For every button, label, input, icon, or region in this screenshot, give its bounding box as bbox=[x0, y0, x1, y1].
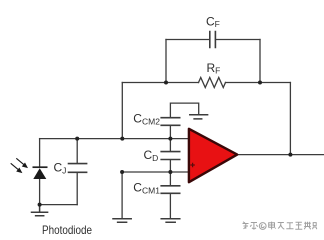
wire: stack segment CCM2 to node bbox=[169, 126, 171, 152]
wire: CF loop right vertical bbox=[259, 40, 261, 83]
wire: photodiode vertical lower bbox=[39, 179, 41, 205]
wire: RF row right segment bbox=[226, 82, 291, 84]
ground stack bottom bbox=[161, 219, 180, 222]
wire: stack segment CD to node bbox=[169, 160, 171, 186]
wire: op-amp output line bbox=[237, 154, 324, 156]
wire: stack segment CCM1 to ground bbox=[169, 194, 171, 219]
node: CF-RF right junction bbox=[258, 81, 262, 85]
wire: feedback top branch left segment to CF bbox=[166, 39, 210, 41]
light arrow 1 bbox=[16, 158, 28, 168]
ground CCM2 top bbox=[190, 115, 208, 119]
wire: CF loop left vertical bbox=[165, 40, 167, 83]
wire: bottom row photodiode to CJ bbox=[40, 204, 78, 206]
wire: non-inverting input row bbox=[122, 171, 189, 173]
capacitor CF plates bbox=[210, 32, 216, 48]
photodiode D1 cathode bar bbox=[33, 166, 48, 168]
wire: feedback top branch right segment from CF bbox=[216, 39, 261, 41]
wire: inverting input row bbox=[40, 138, 189, 140]
node: CJ top junction bbox=[75, 137, 79, 141]
ground photodiode bbox=[32, 205, 48, 216]
wire: input cap stack vertical top segment bbox=[170, 103, 198, 117]
wire: CJ vertical lower bbox=[76, 173, 78, 205]
watermark toutiao bbox=[243, 222, 317, 230]
ground non-inverting input bbox=[113, 219, 131, 222]
wire: photodiode vertical upper bbox=[39, 139, 41, 167]
capacitor CCM1 plates bbox=[161, 186, 180, 194]
light arrow 2 bbox=[11, 163, 23, 173]
wire: right feedback drop bbox=[289, 83, 291, 155]
resistor RF zigzag bbox=[199, 78, 226, 88]
op-amp plus sign bbox=[190, 163, 194, 167]
wire: left feedback drop bbox=[121, 83, 123, 139]
capacitor CJ plates bbox=[69, 164, 87, 173]
photodiode D1 triangle bbox=[33, 168, 46, 179]
node: non-inverting stack junction bbox=[168, 170, 172, 174]
wire: CJ vertical upper bbox=[76, 139, 78, 164]
node: non-inverting ground junction bbox=[120, 170, 124, 174]
node: feedback left junction bbox=[120, 137, 124, 141]
node: output junction bbox=[288, 153, 292, 157]
capacitor CD plates bbox=[161, 152, 180, 160]
svg-text:Photodiode: Photodiode bbox=[42, 223, 92, 237]
node: photodiode ground junction bbox=[38, 203, 42, 207]
wire: RF row left segment bbox=[122, 82, 198, 84]
op-amp U1 bbox=[189, 129, 237, 182]
wire: non-inverting ground drop bbox=[121, 172, 123, 218]
node: inverting input stack junction bbox=[168, 137, 172, 141]
capacitor CCM2 plates bbox=[161, 118, 180, 126]
node: CF-RF left junction bbox=[164, 81, 168, 85]
